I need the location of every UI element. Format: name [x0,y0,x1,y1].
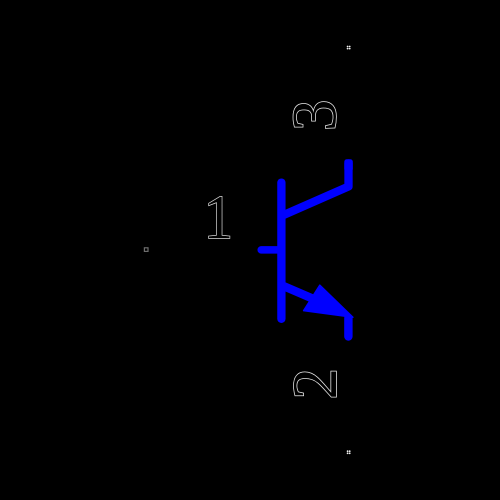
transistor Q1 base bar [277,183,285,319]
pin endpoint marker, pin 1 [144,248,148,252]
svg-text:3: 3 [280,100,350,132]
svg-text:2: 2 [280,368,350,400]
wire emitter terminal segment [344,318,352,337]
collector terminal top cap [344,159,353,171]
emitter arrow [304,285,353,317]
pin endpoint marker, pin 2 [347,450,351,454]
pin endpoint marker, pin 3 [347,46,351,50]
wire base lead (pin 1) [261,246,281,254]
wire emitter lead shaft (pin 2) [283,286,339,310]
svg-text:1: 1 [204,183,233,252]
wire collector lead (pin 3) [283,163,349,215]
